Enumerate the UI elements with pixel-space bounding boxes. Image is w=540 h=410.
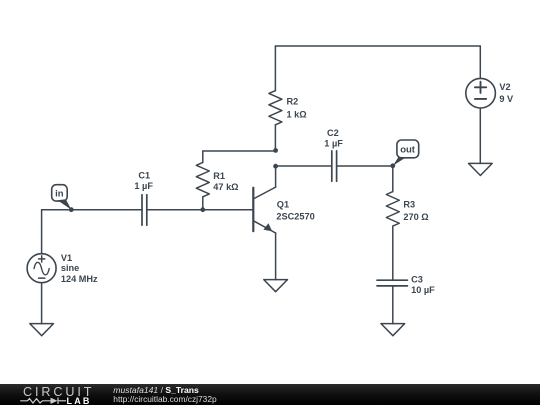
resistor R1 [196,162,209,196]
emitter arrow [263,223,272,231]
svg-text:R2: R2 [287,96,299,106]
svg-text:http://circuitlab.com/czj732p: http://circuitlab.com/czj732p [113,394,217,404]
ground G4 [469,163,493,175]
svg-text:10 µF: 10 µF [411,285,435,295]
wire R3 bottom stub [392,226,394,280]
wire emitter [275,233,277,280]
wire R1 top horizontal [203,150,276,152]
junction dot R1 base [200,207,205,212]
wire collector branch [276,165,332,167]
svg-text:270 Ω: 270 Ω [403,212,428,222]
wire R2 top stub [274,46,276,91]
node out tail [393,157,406,166]
logo waveform [20,398,66,404]
resistor R3 [386,192,399,227]
svg-text:1 µF: 1 µF [134,181,153,191]
wire C2 to out [337,165,393,167]
svg-text:47 kΩ: 47 kΩ [213,182,238,192]
wire top rail [275,45,480,47]
node label out [397,140,419,158]
svg-text:124 MHz: 124 MHz [61,274,98,284]
wire base right [147,209,254,211]
svg-text:1 µF: 1 µF [324,139,343,149]
ground G1 [30,324,54,336]
svg-text:out: out [400,145,416,156]
transistor Q1 [252,188,254,231]
svg-text:C3: C3 [411,274,423,284]
svg-text:in: in [55,189,64,200]
svg-text:R3: R3 [403,199,415,209]
wire R1 bottom stub [202,197,204,210]
wire V1 bottom [41,283,43,324]
node in tail [58,199,72,210]
wire in drop [41,210,43,254]
svg-text:R1: R1 [213,171,225,181]
ground G3 [381,324,405,336]
wire V2 top stub [479,46,481,78]
svg-text:V2: V2 [499,82,510,92]
capacitor C3 [377,280,407,286]
wire R2 bottom stub [274,125,276,151]
svg-text:1 kΩ: 1 kΩ [287,109,307,119]
wire V2 bottom [479,108,481,163]
wire C3 bottom [392,286,394,324]
node label in [52,185,67,201]
svg-text:C1: C1 [138,171,150,181]
junction dot in [69,207,74,212]
svg-text:V1: V1 [61,253,72,263]
wire R3 top stub [392,166,394,192]
junction dot collector [273,164,278,169]
svg-text:C2: C2 [327,128,339,138]
ground G2 [264,280,288,292]
svg-text:LAB: LAB [67,396,92,405]
voltage source V2 [466,78,496,108]
svg-text:Q1: Q1 [277,199,289,209]
junction dot out [390,163,395,168]
wire R1 top stub [202,151,204,162]
capacitor C2 [332,151,337,181]
voltage source V1 [27,254,56,283]
capacitor C1 [142,195,147,226]
wire base left [42,209,142,211]
resistor R2 [269,91,282,125]
wire collector [275,166,277,187]
svg-text:sine: sine [61,263,79,273]
junction dot R1 top [273,148,278,153]
svg-text:2SC2570: 2SC2570 [276,211,314,221]
svg-text:9 V: 9 V [499,94,514,104]
